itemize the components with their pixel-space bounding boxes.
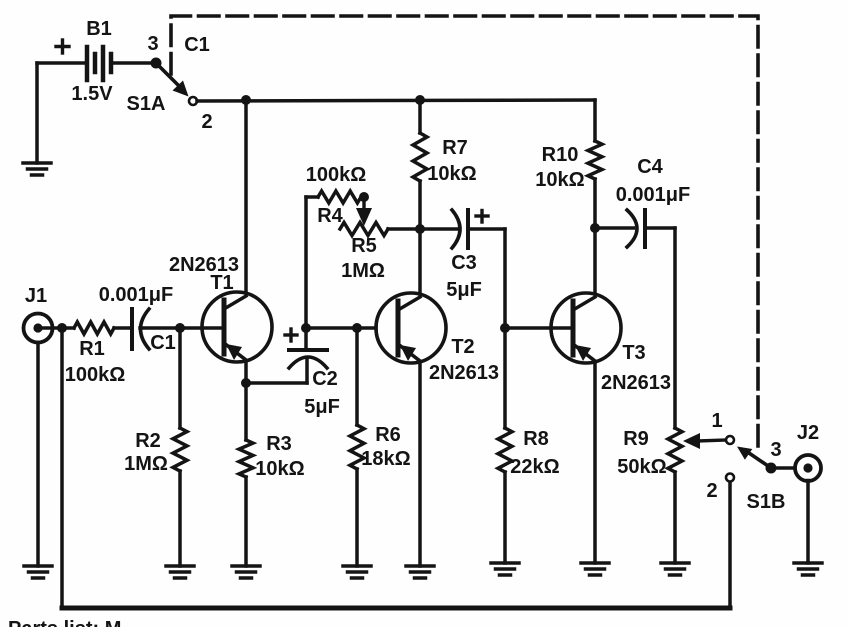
svg-text:0.001μF: 0.001μF	[99, 284, 174, 306]
svg-text:R5: R5	[351, 235, 377, 257]
svg-text:50kΩ: 50kΩ	[617, 456, 666, 478]
svg-text:T1: T1	[210, 272, 233, 294]
svg-text:C4: C4	[637, 156, 663, 178]
svg-text:J2: J2	[797, 422, 819, 444]
svg-text:2: 2	[201, 111, 212, 133]
svg-text:22kΩ: 22kΩ	[510, 456, 559, 478]
svg-text:R1: R1	[79, 338, 105, 360]
svg-text:R7: R7	[442, 137, 468, 159]
svg-text:10kΩ: 10kΩ	[535, 169, 584, 191]
svg-text:3: 3	[147, 33, 158, 55]
svg-text:R2: R2	[135, 430, 161, 452]
svg-text:100kΩ: 100kΩ	[65, 364, 126, 386]
svg-text:R8: R8	[523, 428, 549, 450]
svg-text:J1: J1	[25, 285, 47, 307]
svg-text:1MΩ: 1MΩ	[341, 260, 385, 282]
svg-text:5μF: 5μF	[304, 396, 340, 418]
svg-text:B1: B1	[86, 18, 112, 40]
svg-text:Parts list: M: Parts list: M	[8, 618, 121, 627]
svg-text:3: 3	[770, 439, 781, 461]
svg-text:R3: R3	[266, 433, 292, 455]
svg-text:C1: C1	[150, 332, 176, 354]
svg-text:S1A: S1A	[127, 93, 166, 115]
svg-text:100kΩ: 100kΩ	[306, 164, 367, 186]
svg-text:1MΩ: 1MΩ	[124, 453, 168, 475]
svg-text:R10: R10	[542, 144, 579, 166]
svg-text:2N2613: 2N2613	[429, 362, 499, 384]
svg-text:C1: C1	[184, 34, 210, 56]
svg-text:10kΩ: 10kΩ	[255, 458, 304, 480]
svg-text:R4: R4	[317, 205, 343, 227]
svg-text:T2: T2	[451, 336, 474, 358]
svg-text:10kΩ: 10kΩ	[427, 163, 476, 185]
svg-text:1: 1	[711, 410, 722, 432]
svg-text:C2: C2	[312, 368, 338, 390]
svg-text:C3: C3	[451, 252, 477, 274]
svg-text:R6: R6	[375, 424, 401, 446]
svg-text:T3: T3	[622, 342, 645, 364]
svg-text:1.5V: 1.5V	[71, 83, 113, 105]
svg-text:18kΩ: 18kΩ	[361, 448, 410, 470]
svg-text:R9: R9	[623, 428, 649, 450]
svg-text:S1B: S1B	[747, 491, 786, 513]
svg-text:2N2613: 2N2613	[601, 372, 671, 394]
svg-text:2: 2	[706, 480, 717, 502]
svg-text:5μF: 5μF	[446, 279, 482, 301]
svg-text:0.001μF: 0.001μF	[616, 184, 691, 206]
